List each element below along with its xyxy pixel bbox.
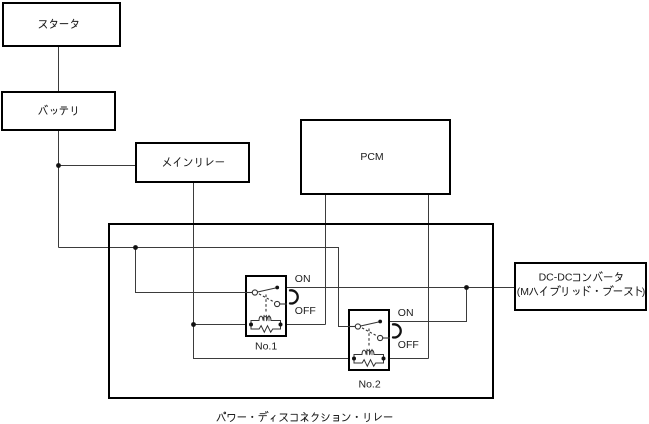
svg-text:(M: (M: [517, 286, 529, 298]
svg-text:No.2: No.2: [359, 379, 381, 391]
svg-text:): ): [642, 286, 646, 298]
svg-text:No.1: No.1: [255, 341, 277, 353]
svg-text:DC-DC: DC-DC: [539, 272, 573, 284]
svg-text:PCM: PCM: [360, 151, 383, 163]
